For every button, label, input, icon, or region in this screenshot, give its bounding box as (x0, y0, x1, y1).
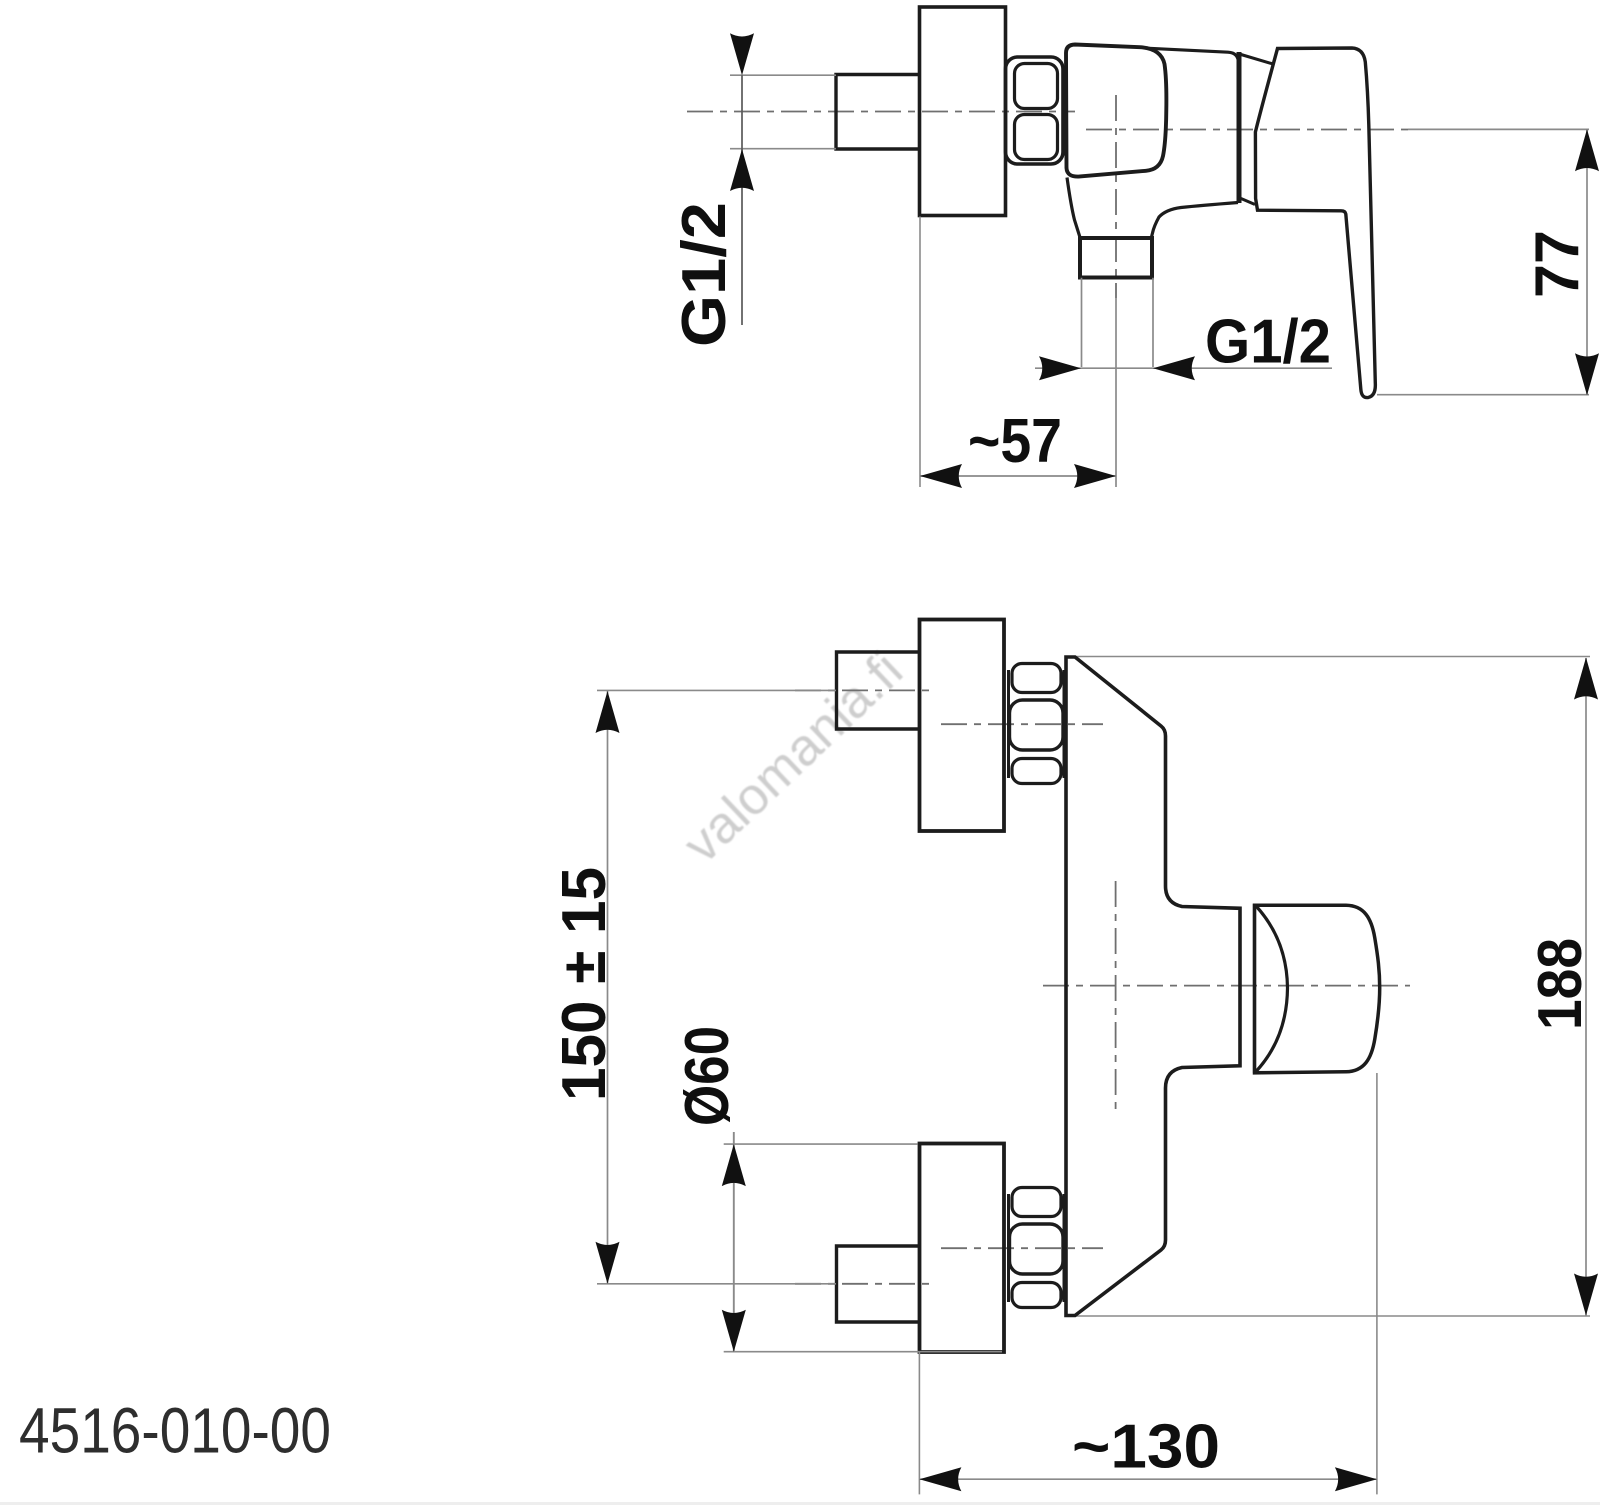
svg-text:G1/2: G1/2 (670, 202, 739, 347)
svg-text:~57: ~57 (968, 407, 1062, 476)
centerline: top inlet axis (front view) (941, 723, 1103, 725)
handle cone arc (front view) (1256, 906, 1288, 1072)
bottom supply stub (front view) (837, 1246, 920, 1322)
bottom wall flange (front view) (920, 1144, 1005, 1353)
svg-text:G1/2: G1/2 (1205, 308, 1331, 377)
dimension 77 (right, top view) (1377, 129, 1599, 395)
svg-text:150 ± 15: 150 ± 15 (550, 867, 619, 1101)
centerline: outlet vertical axis (top view) (1115, 95, 1117, 298)
bottom page separator (0, 1502, 1600, 1505)
svg-text:188: 188 (1526, 938, 1595, 1030)
dimension G1/2 (left, top view) (670, 33, 836, 347)
centerline: body axis (top view) (1086, 129, 1408, 131)
svg-text:77: 77 (1524, 230, 1593, 298)
centerline: pipe axis (top view) (687, 111, 1075, 113)
bottom nut (front view) (1009, 1188, 1065, 1308)
dimension 150 ± 15 (front view) (550, 690, 836, 1283)
dimension G1/2 (outlet, top view) (1035, 308, 1332, 381)
dimension ~57 (top view) (920, 217, 1116, 489)
cartridge front face (side view) (1066, 45, 1166, 177)
centerline: vertical axis (front view) (1115, 881, 1117, 1109)
centerline: top pipe axis (front view) (795, 689, 935, 691)
shower outlet connector (side view) (1080, 238, 1152, 278)
outlet thread extension lines (1082, 278, 1154, 367)
svg-text:~130: ~130 (1072, 1413, 1220, 1482)
svg-text:Ø60: Ø60 (673, 1026, 742, 1126)
top wall flange (front view) (920, 620, 1005, 832)
valve body (front view) (1066, 657, 1240, 1316)
dimension ~130 (front view) (919, 1073, 1377, 1494)
extension line top (188) (1068, 656, 1590, 658)
centerline: bottom pipe axis (front view) (795, 1283, 935, 1285)
wall plate / escutcheon (side view) (920, 7, 1006, 216)
extension line bottom (188) (1070, 1315, 1590, 1317)
centerline: bottom inlet axis (front view) (941, 1247, 1103, 1249)
handle knob cap (front view) (1255, 905, 1380, 1073)
connection nut (side view) (1006, 57, 1064, 164)
svg-text:4516-010-00: 4516-010-00 (19, 1395, 331, 1467)
dimension Ø60 (front view) (673, 1026, 1002, 1352)
handle neck band (front view) (1253, 904, 1256, 1073)
top supply stub (front view) (837, 652, 920, 729)
centerline: knob axis (front view) (1043, 985, 1410, 987)
valve body rear outline (side view) (1067, 48, 1239, 239)
dimension 188 (front view) (1526, 658, 1598, 1316)
lever handle (side view) (1255, 48, 1375, 398)
handle link lines (side view) (1241, 55, 1273, 205)
supply pipe stub (side view) (836, 75, 920, 150)
top nut (front view) (1009, 664, 1065, 784)
